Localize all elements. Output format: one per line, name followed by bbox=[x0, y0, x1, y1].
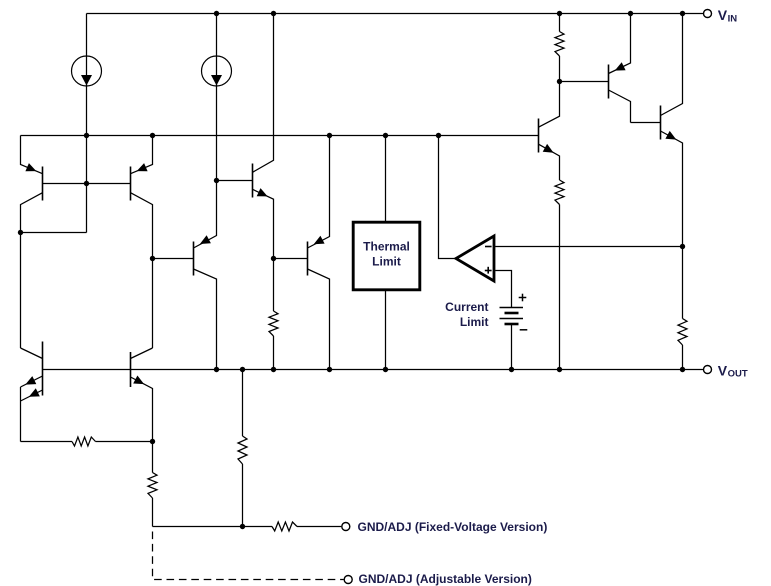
battery V1 plus label bbox=[519, 297, 527, 299]
current source I1 arrow bbox=[81, 75, 92, 86]
terminal VOUT open circle bbox=[704, 366, 712, 374]
svg-text:GND/ADJ (Fixed-Voltage Version: GND/ADJ (Fixed-Voltage Version) bbox=[358, 520, 548, 534]
transistor Q3 collector bbox=[21, 348, 43, 359]
wire: R7 to GND line bbox=[242, 464, 244, 527]
transistor Q1 emitter bbox=[21, 136, 43, 174]
transistor Q6 bar bbox=[252, 164, 254, 198]
junction: VOUT rail at R7 bbox=[240, 367, 245, 372]
transistor Q5 collector bbox=[194, 269, 217, 370]
terminal GND/ADJ fixed open circle bbox=[342, 523, 350, 531]
transistor Q10 emitter bbox=[661, 131, 683, 319]
transistor Q2 collector bbox=[131, 193, 153, 348]
transistor Q4 emitter bbox=[131, 377, 153, 442]
resistor R3 bbox=[678, 319, 687, 346]
junction: top rail at I2 bbox=[214, 11, 219, 16]
wire: I1 to bias rail bbox=[86, 86, 88, 136]
op-amp U1 plus sign bbox=[485, 270, 492, 272]
junction: VOUT rail at Q5 collector bbox=[214, 367, 219, 372]
junction: Q6 base node bbox=[214, 178, 219, 183]
junction: VOUT rail at R2 bbox=[557, 367, 562, 372]
wire: Q6 base bbox=[217, 180, 253, 182]
junction: Q1 collector / base tie bbox=[18, 230, 23, 235]
transistor Q7 emitter arrow bbox=[314, 236, 325, 245]
transistor Q9 bar bbox=[608, 65, 610, 99]
battery V1 plate 3 bbox=[500, 318, 524, 320]
battery V1 plate 2 bbox=[505, 312, 519, 315]
transistor Q5 bar bbox=[193, 242, 195, 276]
junction: top rail at R1 bbox=[557, 11, 562, 16]
resistor R5 bbox=[72, 437, 96, 446]
svg-text:V: V bbox=[718, 362, 728, 378]
transistor Q7 collector bbox=[308, 269, 330, 370]
transistor Q6 emitter arrow bbox=[257, 188, 268, 196]
wire: top rail to I1 bbox=[86, 14, 88, 57]
current source I2 circle bbox=[202, 56, 232, 86]
wire: thermal limit to VOUT rail bbox=[385, 291, 387, 370]
resistor R1 bbox=[555, 32, 564, 57]
battery V1 minus label bbox=[520, 329, 528, 331]
transistor Q9 collector bbox=[609, 90, 631, 123]
transistor Q5 emitter bbox=[194, 181, 217, 249]
wire: Q3 emitter to R5 bbox=[21, 441, 73, 443]
svg-text:Current: Current bbox=[445, 300, 488, 314]
junction: bias rail at comparator bbox=[436, 133, 441, 138]
terminal VIN open circle bbox=[704, 10, 712, 18]
junction: I1 / bias rail bbox=[84, 133, 89, 138]
transistor Q4 emitter arrow bbox=[133, 376, 144, 385]
resistor R6 bbox=[148, 473, 157, 499]
transistor Q3 emitter 1 arrow bbox=[25, 376, 36, 385]
junction: top rail at Q6 collector bbox=[271, 11, 276, 16]
wire: I1 node to mirror base bbox=[86, 136, 88, 233]
transistor Q2 emitter arrow bbox=[137, 163, 148, 171]
transistor Q3 emitter 2 arrow bbox=[29, 388, 40, 397]
wire: Q7 base bbox=[274, 258, 308, 260]
transistor Q6 collector bbox=[253, 14, 274, 173]
wire: bias rail to thermal limit bbox=[385, 136, 387, 222]
junction: VOUT rail at battery bbox=[509, 367, 514, 372]
resistor R8 bbox=[272, 522, 297, 531]
transistor Q10 collector bbox=[661, 14, 683, 116]
wire: Q9 collector to Q10 base bbox=[631, 122, 661, 124]
svg-text:Limit: Limit bbox=[372, 255, 401, 269]
junction: VOUT rail at Q7 collector bbox=[327, 367, 332, 372]
wire: VIN top rail bbox=[87, 13, 704, 15]
transistor Q2 emitter bbox=[131, 136, 153, 174]
junction: R7 bottom bbox=[240, 524, 245, 529]
battery V1 plate 4 bbox=[505, 323, 519, 326]
svg-text:V: V bbox=[718, 7, 728, 23]
junction: minus input at pass emitter bbox=[680, 244, 685, 249]
junction: VOUT rail at R4 bbox=[271, 367, 276, 372]
wire: comparator minus input bbox=[495, 246, 682, 248]
resistor R7 bbox=[238, 436, 247, 464]
wire: R5 to bandgap node bbox=[96, 441, 153, 443]
wire: R8 to terminal bbox=[297, 526, 341, 528]
transistor Q3 emitter 1 bbox=[21, 376, 43, 387]
transistor Q7 emitter bbox=[308, 136, 330, 249]
wire: battery to VOUT rail bbox=[511, 325, 513, 370]
transistor Q1 collector bbox=[21, 193, 43, 348]
junction: mirror base node bbox=[84, 181, 89, 186]
transistor Q8 emitter arrow bbox=[543, 144, 554, 153]
wire: R7 top from VOUT rail bbox=[242, 370, 244, 437]
wire: R6 to GND line bbox=[152, 498, 154, 527]
junction: bias rail at Q2 emitter bbox=[150, 133, 155, 138]
wire: node to R6 bbox=[152, 442, 154, 473]
wire: R1 to Q9 base node bbox=[559, 56, 561, 82]
transistor Q7 bar bbox=[307, 242, 309, 276]
svg-text:GND/ADJ (Adjustable Version): GND/ADJ (Adjustable Version) bbox=[359, 572, 532, 586]
wire: top rail to R1 bbox=[559, 14, 561, 32]
transistor Q8 emitter bbox=[539, 144, 560, 180]
wire: Q9 base bbox=[560, 81, 609, 83]
transistor Q8 bar bbox=[538, 119, 540, 153]
junction: top rail at Q10 collector bbox=[680, 11, 685, 16]
svg-text:Limit: Limit bbox=[460, 315, 489, 329]
junction: bandgap emitter node bbox=[150, 439, 155, 444]
transistor Q9 emitter arrow bbox=[615, 62, 626, 70]
transistor Q1 bar bbox=[42, 167, 44, 201]
wire: R2 to VOUT rail bbox=[559, 205, 561, 370]
resistor R4 bbox=[269, 311, 278, 336]
svg-text:IN: IN bbox=[728, 14, 738, 25]
transistor Q3 bar bbox=[42, 342, 44, 396]
junction: bias rail at thermal limit bbox=[383, 133, 388, 138]
current source I1 internal wire bbox=[86, 56, 88, 86]
transistor Q2 bar bbox=[130, 167, 132, 201]
wire: Q7 base node to R4 bbox=[273, 259, 275, 312]
wire: Q3 emitters down bbox=[20, 387, 22, 442]
junction: top rail at Q9 emitter bbox=[628, 11, 633, 16]
terminal GND/ADJ adjustable open circle bbox=[344, 576, 352, 584]
wire: Q1-Q2 base bbox=[43, 183, 131, 185]
wire: GND/ADJ fixed line bbox=[153, 526, 273, 528]
junction: Q5 base node bbox=[150, 256, 155, 261]
wire: mirror base to Q1 collector bbox=[21, 232, 87, 234]
transistor Q3 emitter 2 bbox=[21, 390, 43, 401]
svg-text:Thermal: Thermal bbox=[363, 240, 410, 254]
transistor Q4 collector bbox=[131, 348, 153, 359]
current source I1 circle bbox=[72, 56, 102, 86]
wire: R4 to VOUT rail bbox=[273, 336, 275, 370]
transistor Q10 bar bbox=[660, 106, 662, 140]
transistor Q6 emitter bbox=[253, 189, 274, 258]
resistor R2 bbox=[555, 180, 564, 205]
op-amp U1 current limit triangle bbox=[456, 236, 494, 281]
op-amp U1 minus sign bbox=[485, 246, 492, 248]
svg-text:OUT: OUT bbox=[728, 368, 748, 379]
transistor Q4 bar bbox=[130, 352, 132, 387]
wire: bias rail (middle) bbox=[21, 135, 539, 137]
transistor Q9 emitter bbox=[609, 14, 631, 74]
junction: VOUT rail at R3 bbox=[680, 367, 685, 372]
junction: Q7 base node bbox=[271, 256, 276, 261]
junction: Q9 base node bbox=[557, 79, 562, 84]
transistor Q5 emitter arrow bbox=[200, 235, 211, 244]
junction: VOUT rail at thermal limit bbox=[383, 367, 388, 372]
wire: VOUT rail bbox=[43, 369, 704, 371]
wire: top rail to I2 bbox=[216, 14, 218, 57]
transistor Q10 emitter arrow bbox=[665, 131, 676, 140]
wire: Q5 base bbox=[153, 258, 194, 260]
wire: comparator plus input bbox=[495, 271, 511, 308]
transistor Q1 emitter arrow bbox=[25, 163, 36, 171]
wire: R3 to VOUT rail bbox=[682, 345, 684, 370]
current source I2 arrow bbox=[211, 75, 222, 86]
wire: bias rail to comparator output bbox=[439, 136, 456, 259]
wire: dashed adjustable line bbox=[153, 532, 344, 580]
battery V1 plate 1 bbox=[500, 307, 524, 309]
wire: I2 down to Q6 base node bbox=[216, 86, 218, 181]
transistor Q8 collector bbox=[539, 82, 560, 128]
thermal limit block bbox=[353, 222, 420, 290]
junction: bias rail at Q7 emitter bbox=[327, 133, 332, 138]
current source I2 internal wire bbox=[216, 56, 218, 86]
